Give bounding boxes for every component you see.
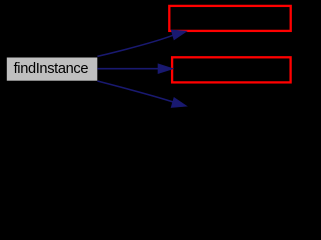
node (red, middle) [172, 57, 291, 82]
wire edge to middle node [97, 64, 173, 74]
wire edge to top node [97, 30, 187, 57]
node (red, top) [169, 6, 290, 31]
node findInstance [6, 57, 98, 81]
svg-text:findInstance: findInstance [14, 61, 89, 77]
wire edge to bottom node [97, 81, 187, 108]
